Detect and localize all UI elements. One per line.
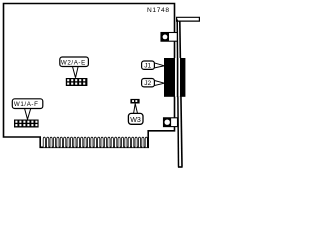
svg-text:W1/A-F: W1/A-F bbox=[14, 101, 39, 108]
W3 callout tail bbox=[134, 104, 138, 114]
W1/A-F label bbox=[12, 99, 43, 109]
edge connector fingers bbox=[43, 137, 147, 147]
W2/A-E callout tail bbox=[72, 66, 78, 78]
J1 callout tail bbox=[154, 63, 164, 68]
W1/A-F callout tail bbox=[25, 108, 31, 119]
J2 callout tail bbox=[154, 80, 164, 85]
svg-text:W3: W3 bbox=[130, 116, 141, 124]
jumper W3 bbox=[130, 99, 139, 104]
connector block J1/J2 (dual jack) bbox=[164, 58, 185, 97]
svg-text:J1: J1 bbox=[144, 63, 151, 70]
J1 label bbox=[142, 61, 155, 69]
svg-text:W2/A-E: W2/A-E bbox=[61, 59, 86, 66]
jack with round opening (top) bbox=[161, 33, 177, 42]
card outline (PCB) bbox=[4, 4, 175, 148]
W3 label bbox=[128, 113, 143, 124]
J2 label bbox=[142, 79, 155, 87]
jumper block W2 bbox=[66, 78, 88, 86]
W2/A-E label bbox=[60, 57, 89, 67]
svg-text:N1748: N1748 bbox=[147, 7, 170, 14]
bracket bbox=[177, 20, 178, 167]
svg-text:J2: J2 bbox=[144, 80, 151, 87]
jack with round opening (bottom) bbox=[164, 118, 178, 127]
bracket top flange bbox=[177, 17, 200, 21]
jumper block W1 bbox=[14, 120, 39, 128]
